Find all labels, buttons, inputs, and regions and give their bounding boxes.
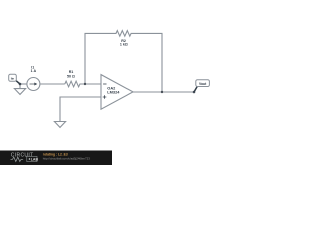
svg-text:Vout: Vout <box>199 82 207 86</box>
svg-text:LAB: LAB <box>31 158 39 162</box>
svg-text:http://circuitlab.com/c/ad5j24: http://circuitlab.com/c/ad5j246bm723 <box>43 157 90 161</box>
svg-text:1 kΩ: 1 kΩ <box>120 43 128 47</box>
svg-text:Iin: Iin <box>11 76 15 80</box>
svg-text:LM324: LM324 <box>107 90 120 95</box>
svg-text:R1: R1 <box>69 70 74 74</box>
svg-text:50 Ω: 50 Ω <box>67 74 75 78</box>
svg-text:1 A: 1 A <box>31 69 37 73</box>
